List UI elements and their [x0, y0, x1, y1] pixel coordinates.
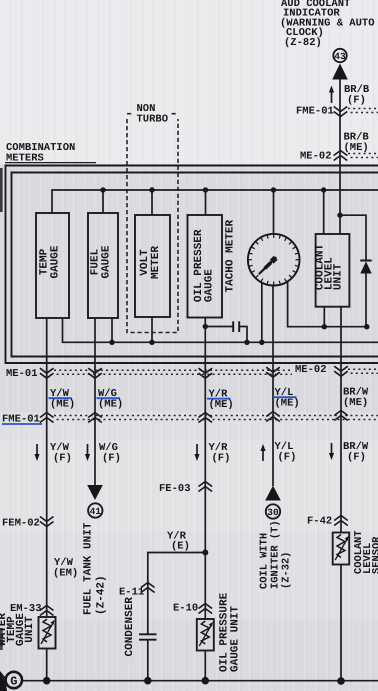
svg-text:(F): (F) — [278, 452, 297, 464]
wire: tacho bottom-left lead — [261, 283, 263, 343]
off-page connector circle 30 — [266, 504, 280, 518]
wire: coolant sensor to ground bus — [340, 565, 342, 682]
svg-text:(Z-82): (Z-82) — [284, 37, 322, 49]
svg-text:ME-02: ME-02 — [295, 364, 327, 376]
label BR/B (F) — [344, 84, 370, 107]
scan edge artifact left blob — [0, 628, 3, 650]
resistor R1 water temp gauge unit — [39, 617, 56, 649]
label OIL PRESSURE GAUGE UNIT — [219, 592, 242, 672]
svg-text:(ME): (ME) — [343, 397, 368, 409]
wire 3: oil gauge to oil pressure sensor (Y/R) — [204, 318, 206, 620]
off-page arrow (up) to indicator — [332, 64, 348, 80]
combination meters outer box — [6, 166, 378, 364]
svg-text:(F): (F) — [212, 453, 231, 465]
coolant level unit U6 — [315, 234, 350, 307]
diode D1 — [360, 261, 371, 274]
NON TURBO dashed box — [127, 103, 178, 333]
connector FME-01 (top) — [296, 106, 378, 118]
off-page arrow (up) from coil — [265, 486, 281, 501]
connector row FME-01 — [2, 411, 378, 426]
svg-text:(ME): (ME) — [209, 399, 234, 411]
text: AUD COOLANT INDICATOR heading — [280, 0, 375, 49]
connector E-10 — [173, 603, 212, 615]
svg-text:(F): (F) — [347, 452, 366, 464]
tacho meter U5 — [225, 220, 300, 293]
connector E-11 — [119, 583, 155, 599]
svg-text:GAUGE: GAUGE — [50, 245, 62, 278]
wire: tacho bottom-right lead + line to diode — [288, 282, 367, 327]
svg-text:FEM-02: FEM-02 — [2, 518, 40, 530]
label COOLANT LEVEL SENSOR — [353, 530, 378, 574]
svg-text:UNIT: UNIT — [24, 616, 36, 643]
wire labels (ME) with blue ink underlines — [49, 387, 369, 412]
svg-text:TACHO METER: TACHO METER — [225, 220, 237, 293]
wire: coolant unit top-right lead — [339, 215, 341, 234]
svg-text:GAUGE: GAUGE — [101, 245, 113, 278]
connector FE-03 — [159, 482, 212, 496]
wire: tacho top lead — [273, 190, 275, 234]
oil presser gauge U4 — [188, 215, 223, 318]
svg-text:30: 30 — [267, 507, 279, 518]
ground symbol G — [6, 672, 22, 689]
wire: fuel gauge top lead — [102, 190, 104, 213]
svg-text:E-11: E-11 — [119, 587, 144, 599]
svg-text:ME-02: ME-02 — [300, 151, 332, 163]
svg-text:(E): (E) — [171, 541, 190, 553]
wire 2: fuel gauge to fuel tank unit (W/G) — [94, 318, 96, 486]
connector FEM-02 — [2, 517, 54, 530]
wire 4: tacho to coil (Y/L) — [272, 286, 274, 487]
fuel gauge U2 — [88, 213, 118, 318]
capacitor C1 (internal) — [205, 321, 247, 342]
svg-text:(Z-32): (Z-32) — [281, 552, 293, 589]
resistor R3 coolant level sensor — [333, 533, 350, 565]
label Y/W (EM) — [53, 557, 78, 580]
svg-text:(F): (F) — [347, 95, 366, 107]
svg-text:TURBO: TURBO — [137, 114, 169, 126]
connector F-42 — [307, 516, 348, 528]
node: ground bus dots — [43, 677, 345, 685]
svg-text:(ME): (ME) — [98, 399, 123, 411]
wire: oil sensor to ground bus — [204, 651, 206, 682]
wire: volt meter bottom lead — [151, 317, 153, 342]
node: junction BR/B / coolant / diode — [337, 213, 342, 218]
off-page arrow (down) to fuel tank unit — [87, 485, 103, 500]
wire: branch to diode — [340, 215, 366, 260]
connector row ME-01 / ME-02 — [6, 364, 378, 380]
wire: oil gauge top lead — [205, 190, 207, 215]
wire: volt meter top lead — [151, 190, 153, 215]
svg-text:FUEL TANK UNIT: FUEL TANK UNIT — [83, 522, 95, 615]
svg-text:(ME): (ME) — [50, 399, 75, 411]
svg-text:43: 43 — [334, 51, 346, 62]
flow arrow up — [329, 86, 334, 104]
wire: power bus (top) — [52, 190, 378, 213]
wire: coolant unit bottom-left lead — [323, 307, 325, 327]
svg-text:ME-01: ME-01 — [6, 368, 38, 380]
connector EM-33 — [10, 603, 54, 616]
svg-text:FME-01: FME-01 — [296, 106, 334, 118]
label FUEL TANK UNIT (Z-42) — [83, 522, 108, 615]
wire: branch to condenser — [148, 553, 206, 635]
connector ME-02 (top) — [300, 151, 378, 163]
label WATER TEMP GAUGE UNIT — [0, 613, 36, 646]
svg-text:F-42: F-42 — [307, 516, 332, 528]
volt meter U3 — [135, 215, 170, 317]
svg-text:E-10: E-10 — [173, 603, 198, 615]
scan edge artifact bottom-left wedge — [0, 671, 7, 691]
svg-text:METER: METER — [150, 246, 162, 279]
ground bus — [23, 680, 378, 682]
svg-text:GAUGE: GAUGE — [204, 269, 216, 302]
wire 1: temp gauge to water temp sensor (Y/W) — [46, 318, 48, 617]
off-page connector circle 43 — [333, 49, 346, 62]
resistor R2 oil pressure gauge unit — [197, 619, 214, 651]
node: bus junction dots — [100, 187, 326, 192]
wire: fuel gauge bottom-right lead — [111, 318, 113, 342]
temp gauge U1 — [36, 213, 69, 318]
wire BR/B vertical to combination meter — [339, 80, 341, 216]
node: junction Y/R split — [202, 550, 208, 556]
off-page connector circle 41 — [88, 503, 102, 517]
wire: coolant level unit top-left lead — [323, 190, 325, 234]
svg-text:(F): (F) — [102, 453, 121, 465]
svg-text:(ME): (ME) — [275, 398, 300, 410]
capacitor C2 condenser — [139, 634, 157, 639]
wire labels (F) with flow arrows — [34, 441, 369, 465]
svg-text:(EM): (EM) — [53, 568, 78, 580]
label Y/R (E) — [167, 531, 190, 553]
wire: condenser to ground bus — [147, 640, 149, 681]
wire: temp gauge bottom-right lead + return bus — [63, 318, 378, 342]
svg-text:GAUGE UNIT: GAUGE UNIT — [230, 606, 242, 672]
svg-text:CONDENSER: CONDENSER — [124, 597, 136, 657]
node: return bus dots — [109, 324, 369, 345]
label BR/B (ME) — [344, 132, 370, 155]
svg-text:G: G — [10, 675, 17, 689]
svg-text:FE-03: FE-03 — [159, 483, 191, 495]
label COIL WITH IGNITER (Z-32) — [259, 520, 293, 589]
wire: water temp unit to ground bus — [46, 649, 48, 682]
svg-text:41: 41 — [90, 506, 102, 517]
svg-text:(F): (F) — [53, 453, 72, 465]
paper background bands — [0, 0, 378, 164]
svg-text:SENSOR: SENSOR — [371, 536, 378, 574]
svg-text:(Z-42): (Z-42) — [96, 575, 108, 615]
combination meters inner box — [12, 173, 378, 357]
scan edge artifact left dark bar — [0, 168, 3, 212]
svg-text:UNIT: UNIT — [333, 263, 345, 290]
wire 5: coolant unit to level sensor (BR/W) — [340, 307, 342, 533]
label COMBINATION METERS — [5, 142, 96, 164]
svg-text:(ME): (ME) — [344, 142, 369, 154]
wire: diode bottom lead — [365, 274, 367, 327]
